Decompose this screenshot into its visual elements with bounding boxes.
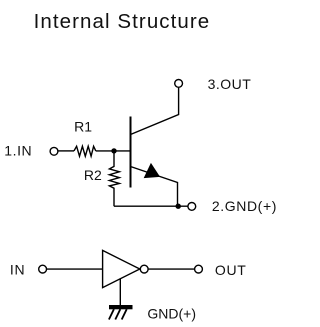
ground hatch 2: [115, 309, 120, 319]
svg-text:GND(+): GND(+): [147, 305, 196, 321]
ground hatch 3: [122, 309, 127, 319]
inverter U1: [103, 250, 140, 287]
terminal 3.OUT: [175, 80, 183, 88]
svg-text:R1: R1: [74, 119, 92, 135]
ground bar: [109, 305, 133, 309]
wire: terminal 1.IN to R1: [58, 150, 74, 152]
ground hatch 1: [109, 309, 114, 319]
terminal IN: [39, 265, 47, 273]
wire: bottom rail to 2.GND terminal: [114, 205, 188, 207]
svg-text:1.IN: 1.IN: [4, 142, 32, 158]
transistor Q1 base bar: [130, 117, 132, 188]
wire: IN terminal to inverter: [47, 268, 103, 270]
transistor Q1 emitter wire to GND rail: [131, 167, 178, 207]
terminal 1.IN: [50, 147, 58, 155]
svg-text:3.OUT: 3.OUT: [208, 76, 252, 92]
wire: R1 to base node: [96, 150, 131, 152]
resistor R2: [109, 151, 119, 206]
svg-text:R2: R2: [84, 167, 102, 183]
svg-text:2.GND(+): 2.GND(+): [212, 198, 277, 214]
wire: inverter to ground: [119, 278, 121, 306]
junction node at emitter/rail: [176, 204, 181, 209]
inverter U1 output bubble: [140, 265, 148, 273]
terminal OUT: [195, 265, 203, 273]
wire: bubble to OUT terminal: [148, 268, 194, 270]
junction node at base: [111, 148, 116, 153]
terminal 2.GND: [188, 203, 196, 211]
transistor Q1 collector wire to 3.OUT: [131, 88, 179, 135]
resistor R1: [74, 146, 96, 156]
svg-text:Internal Structure: Internal Structure: [34, 10, 211, 33]
transistor Q1 emitter arrow (PNP): [145, 164, 160, 178]
svg-text:IN: IN: [10, 261, 25, 277]
svg-text:OUT: OUT: [215, 262, 247, 278]
